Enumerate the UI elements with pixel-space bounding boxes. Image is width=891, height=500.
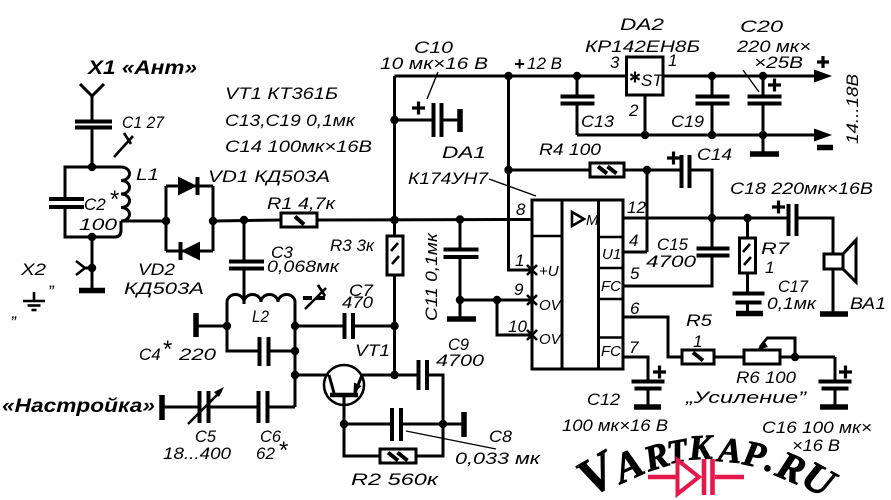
svg-text:С14 100мк×16В: С14 100мк×16В [225, 137, 372, 156]
svg-text:+U: +U [539, 263, 559, 280]
svg-text:С4: С4 [139, 345, 161, 364]
svg-text:FC: FC [601, 343, 621, 360]
svg-text:10 мк×16 В: 10 мк×16 В [380, 54, 488, 73]
svg-text:L1: L1 [136, 165, 159, 184]
svg-text:DA2: DA2 [620, 15, 665, 34]
svg-text:VT1 КТ361Б: VT1 КТ361Б [225, 84, 338, 103]
svg-text:62: 62 [256, 444, 275, 463]
svg-text:С13: С13 [581, 112, 615, 131]
svg-text:1: 1 [515, 251, 524, 270]
svg-text:0,1мк: 0,1мк [767, 294, 817, 313]
svg-text:12: 12 [627, 198, 646, 217]
svg-text:С1 27: С1 27 [122, 113, 164, 132]
svg-text:8: 8 [516, 200, 526, 219]
svg-text:A: A [715, 430, 744, 471]
svg-text:470: 470 [342, 293, 374, 312]
svg-text:6: 6 [630, 299, 640, 318]
svg-text:VT1: VT1 [355, 341, 390, 360]
svg-text:С18 220мк×16В: С18 220мк×16В [730, 179, 873, 198]
svg-text:4700: 4700 [646, 252, 697, 271]
svg-text:U1: U1 [602, 246, 621, 263]
svg-text:С19: С19 [671, 112, 705, 131]
svg-text:R6 100: R6 100 [736, 368, 797, 387]
svg-text:R5: R5 [686, 311, 713, 330]
svg-text:100: 100 [79, 215, 118, 234]
svg-text:Х2: Х2 [20, 260, 47, 279]
svg-text:7: 7 [629, 338, 639, 357]
svg-text:100 мк×16 В: 100 мк×16 В [562, 416, 668, 435]
svg-text:С14: С14 [697, 145, 732, 164]
svg-text:0,068мк: 0,068мк [267, 257, 340, 276]
svg-text:9: 9 [514, 280, 524, 299]
svg-text:14...18В: 14...18В [843, 74, 862, 144]
svg-text:С11 0,1мк: С11 0,1мк [422, 232, 441, 321]
svg-text:С2: С2 [84, 195, 106, 214]
svg-text:R1 4,7к: R1 4,7к [267, 194, 336, 213]
svg-text:«Настройка»: «Настройка» [2, 396, 155, 417]
svg-text:220: 220 [178, 345, 217, 364]
svg-text:„: „ [11, 303, 18, 322]
svg-text:*: * [109, 186, 119, 213]
svg-text:M: M [586, 212, 599, 229]
svg-text:+: + [514, 54, 525, 74]
svg-text:OV: OV [539, 331, 563, 348]
svg-text:DA1: DA1 [442, 143, 486, 162]
svg-text:OV: OV [539, 297, 563, 314]
svg-text:Х1 «Ант»: Х1 «Ант» [87, 58, 197, 79]
svg-text:С20: С20 [740, 17, 784, 36]
svg-text:4: 4 [629, 231, 638, 250]
svg-text:*: * [278, 437, 288, 464]
svg-text:R4 100: R4 100 [539, 140, 602, 159]
svg-text:0,033 мк: 0,033 мк [455, 449, 541, 468]
svg-text:С8: С8 [489, 427, 513, 446]
svg-text:×25В: ×25В [754, 53, 803, 72]
svg-text:С16 100 мк×: С16 100 мк× [762, 418, 872, 437]
svg-text:2: 2 [628, 101, 639, 120]
svg-text:С12: С12 [587, 390, 621, 409]
svg-text:12 В: 12 В [527, 54, 562, 73]
svg-text:18...400: 18...400 [163, 444, 232, 463]
svg-text:С13,С19 0,1мк: С13,С19 0,1мк [225, 111, 356, 130]
svg-text:R7: R7 [761, 239, 790, 258]
svg-text:5: 5 [630, 264, 640, 283]
svg-text:VD2: VD2 [138, 260, 176, 279]
svg-text:L2: L2 [252, 307, 269, 326]
svg-text:ВА1: ВА1 [850, 294, 886, 313]
svg-text:1: 1 [668, 51, 677, 70]
svg-text:3: 3 [610, 53, 620, 72]
svg-text:КД503А: КД503А [124, 279, 204, 298]
svg-text:К174УН7: К174УН7 [408, 169, 489, 188]
svg-text:*: * [162, 336, 172, 363]
svg-text:1: 1 [693, 332, 702, 351]
svg-text:КР142ЕН8Б: КР142ЕН8Б [585, 37, 700, 56]
svg-text:„Усиление”: „Усиление” [685, 388, 808, 407]
svg-text:1: 1 [765, 258, 774, 277]
svg-text:R3 3к: R3 3к [330, 236, 375, 255]
svg-text:10: 10 [508, 317, 527, 336]
svg-text:VD1 КД503А: VD1 КД503А [208, 167, 330, 186]
svg-text:R2 560к: R2 560к [351, 470, 439, 489]
svg-text:4700: 4700 [436, 351, 485, 370]
svg-text:ST: ST [641, 71, 664, 90]
svg-text:FC: FC [601, 278, 621, 295]
